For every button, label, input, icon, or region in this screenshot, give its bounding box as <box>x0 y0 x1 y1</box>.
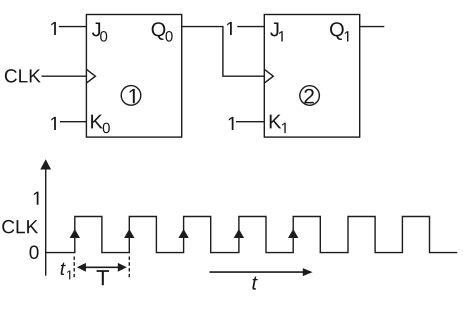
label t (time) <box>252 277 257 290</box>
clock chevron U1 <box>86 69 95 83</box>
label J0 (U1 pin J) <box>92 22 107 41</box>
constant 1 label at U2 J input <box>227 22 232 35</box>
rising-edge arrow 3 <box>178 229 188 238</box>
label Q0 (U1 pin Q) <box>152 22 173 41</box>
constant 1 label at U1 K input <box>51 117 56 130</box>
dashed marker at t1+T <box>128 257 130 279</box>
axis label CLK <box>2 220 38 233</box>
flip-flop U2 (box 2) <box>264 15 359 138</box>
label K0 (U1 pin K) <box>91 115 110 134</box>
CLK waveform <box>46 217 458 253</box>
rising-edge arrow 2 <box>124 229 134 238</box>
wire 1 to K1 <box>236 121 264 123</box>
label Q1 (U2 pin Q) <box>330 22 348 41</box>
axis label 1 <box>34 192 39 205</box>
dashed marker at t1 <box>73 257 75 279</box>
label J1 (U2 pin J) <box>270 22 283 41</box>
wire CLK to U1 clock <box>42 75 87 77</box>
label CLK <box>5 69 41 82</box>
time axis arrow t <box>210 268 313 276</box>
clock chevron U2 <box>264 69 273 83</box>
rising-edge arrow 4 <box>234 229 244 238</box>
wire Q1 output stub <box>360 26 385 28</box>
wire Q0 to U2 clock <box>182 27 265 77</box>
label t1 <box>61 263 71 280</box>
axis label 0 <box>29 246 38 259</box>
wire 1 to J1 <box>237 26 264 28</box>
timing axis arrowhead <box>40 159 51 169</box>
rising-edge arrow 1 <box>70 229 80 238</box>
flip-flop U1 (box 1) <box>86 15 181 138</box>
wire 1 to K0 <box>60 121 86 123</box>
wire 1 to J0 <box>59 26 87 28</box>
rising-edge arrow 5 <box>288 229 298 238</box>
circled 2 (U2 designator) <box>300 86 320 106</box>
constant 1 label at U1 J input <box>51 22 56 35</box>
period double arrow T <box>77 263 127 272</box>
label T <box>97 270 109 285</box>
circled 1 (U1 designator) <box>121 86 141 106</box>
timing axis vertical line <box>45 165 47 276</box>
label K1 (U2 pin K) <box>270 115 286 133</box>
constant 1 label at U2 K input <box>229 117 234 130</box>
